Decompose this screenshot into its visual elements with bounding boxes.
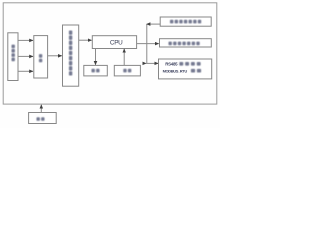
block RS485 MODBUS interface [159, 59, 212, 79]
wire sensor to filter (top) [18, 39, 33, 41]
svg-text:MODBUS_RTU: MODBUS_RTU [163, 69, 188, 74]
block display (2-char label) [84, 65, 108, 76]
wire filter to signal conditioning [48, 55, 62, 57]
block switch input detection (7-char label) [160, 17, 211, 26]
wire sensor to filter (bottom) [18, 70, 33, 72]
outer frame [3, 3, 217, 104]
block filter (2-char vertical label) [34, 36, 48, 78]
wire CPU to display [95, 49, 97, 65]
block CPU U1 [92, 36, 136, 49]
svg-text:RS485: RS485 [165, 62, 178, 67]
wire bus to RS485 (bidirectional) [146, 62, 158, 64]
wire keys to CPU [123, 49, 125, 66]
block signal conditioning circuit (9-char vertical label) [63, 25, 79, 86]
block sensor input (4-char vertical label) [8, 33, 18, 81]
wire sensor to filter (middle) [18, 55, 33, 57]
wire switch input to bus [147, 23, 161, 25]
block power (2-char label) [29, 113, 57, 124]
svg-text:CPU: CPU [110, 40, 123, 47]
block alarm relay output (7-char label) [160, 39, 212, 47]
wire bus vertical line [146, 24, 148, 63]
wire CPU to alarm relay output [137, 43, 159, 45]
wire signal conditioning to CPU [79, 39, 92, 41]
wire power to frame [40, 105, 42, 113]
block keys (2-char label) [114, 65, 140, 76]
